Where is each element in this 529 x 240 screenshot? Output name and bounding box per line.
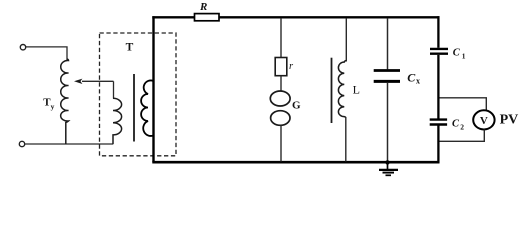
wire branch Cx upper [387, 18, 389, 69]
wire PV loop bottom [440, 130, 485, 142]
inductor L coil [338, 61, 346, 119]
voltmeter PV [473, 110, 494, 129]
capacitor C2 [430, 118, 447, 120]
wire PV loop top [440, 98, 487, 111]
wire right bus upper (to C1) [437, 16, 439, 48]
node ground junction [385, 160, 389, 164]
capacitor C1 [430, 48, 448, 50]
transformer T dashed box [100, 33, 177, 156]
svg-text:R: R [199, 1, 207, 13]
svg-text:T: T [126, 42, 134, 54]
svg-text:x: x [416, 76, 420, 85]
resistor r [275, 58, 287, 76]
inductor L core [331, 58, 333, 123]
svg-text:V: V [480, 115, 488, 127]
wire bottom lead to transformer primary [25, 143, 113, 145]
wire r to gap [280, 76, 282, 91]
svg-text:C: C [452, 119, 460, 130]
svg-text:C: C [453, 48, 461, 59]
wire top bus right segment [219, 16, 440, 18]
svg-text:L: L [353, 82, 360, 96]
wire L to bottom bus [345, 117, 347, 162]
wire Cx to bottom bus [387, 83, 389, 162]
wire branch L upper [345, 18, 347, 62]
terminal bottom-left [19, 141, 24, 146]
transformer secondary coil [141, 80, 153, 135]
autotransformer Ty coil [61, 59, 69, 144]
svg-text:r: r [289, 61, 294, 72]
svg-text:2: 2 [460, 122, 464, 131]
svg-text:1: 1 [462, 51, 466, 60]
wire bottom bus [152, 161, 439, 164]
transformer core [133, 74, 135, 142]
sphere gap G upper sphere [270, 91, 290, 106]
sphere gap G lower sphere [271, 111, 290, 126]
wire right bus lower (C2 to bottom bus) [437, 126, 439, 164]
wire right bus middle (C1 to C2) [437, 55, 439, 119]
wire top bus left segment [152, 16, 194, 18]
transformer primary coil [113, 98, 122, 144]
terminal top-left [20, 45, 25, 50]
wire top lead to Ty [26, 47, 67, 60]
wire gap to bottom bus [280, 125, 282, 161]
svg-text:C: C [407, 71, 416, 85]
capacitor Cx [374, 69, 400, 72]
svg-text:PV: PV [500, 112, 519, 127]
wire secondary riser (thick) [152, 16, 154, 162]
svg-text:y: y [51, 102, 55, 111]
ground [387, 164, 389, 170]
resistor R [195, 14, 220, 21]
wire branch r-G upper [280, 18, 282, 58]
wire tap down to primary [113, 81, 115, 98]
svg-text:G: G [292, 99, 301, 111]
tap arrow into Ty [82, 80, 114, 82]
